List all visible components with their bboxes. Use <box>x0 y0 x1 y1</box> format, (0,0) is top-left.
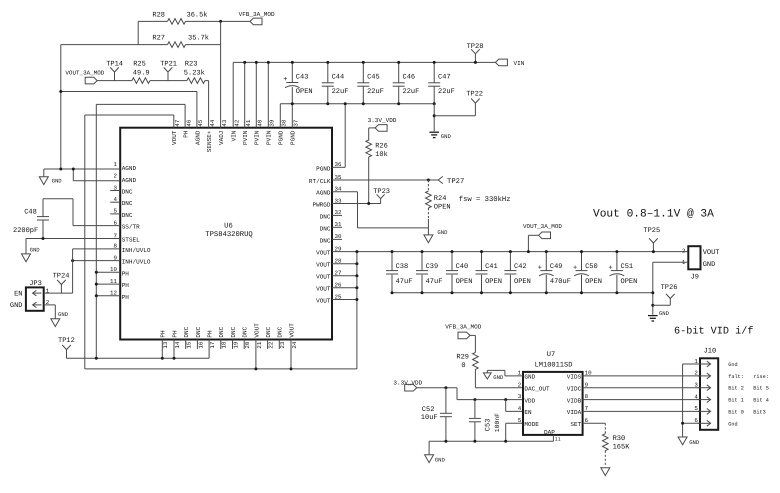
svg-text:PGND: PGND <box>290 130 297 145</box>
resistor R25 <box>132 60 150 83</box>
test point TP26 <box>653 284 678 305</box>
pin 23 DNC (U6 bottom) <box>277 326 287 348</box>
wire 3.3V rail <box>417 386 523 401</box>
pin 27 VOUT (U6 right) <box>316 270 342 281</box>
resistor R29 <box>456 335 478 387</box>
wire pin 25 stub <box>332 298 358 301</box>
svg-text:3.3V_VDD: 3.3V_VDD <box>393 380 422 387</box>
svg-text:18: 18 <box>221 341 228 348</box>
wire VIDA <box>583 410 700 412</box>
svg-text:J10: J10 <box>704 347 717 355</box>
pin 6 SET (U7 right) <box>570 417 588 428</box>
wire input cap gnd bus <box>280 104 434 128</box>
wire pin 26 stub <box>332 286 358 289</box>
wire J10 gnd ties <box>681 364 700 437</box>
ground (pin1 AGND) <box>39 169 62 185</box>
text Vout spec <box>593 207 714 220</box>
pin 10 VIDS (U7 right) <box>567 370 592 381</box>
node VFB_3A_MOD (top flag) <box>221 11 275 25</box>
wire VIDC <box>583 387 700 389</box>
svg-text:VIN: VIN <box>514 60 525 67</box>
svg-text:C49: C49 <box>550 263 563 271</box>
op-amp U7 body <box>523 351 583 435</box>
svg-text:17: 17 <box>209 341 216 348</box>
junction R28/R27/VADJ <box>219 20 222 23</box>
svg-text:49.9: 49.9 <box>133 69 150 77</box>
wire pin 2 AGND <box>72 168 120 181</box>
node VOUT_3A_MOD (mid flag) <box>523 223 562 253</box>
svg-text:PGND: PGND <box>316 165 331 172</box>
svg-text:GND: GND <box>10 302 23 310</box>
svg-text:C44: C44 <box>332 74 345 82</box>
wire JP3 pin 1 <box>44 292 73 294</box>
svg-text:VOUT: VOUT <box>703 249 720 257</box>
pin 3 DNC (U6 left) <box>114 184 133 195</box>
pin 29 VOUT (U6 right) <box>316 245 342 256</box>
pin 40 PVIN (U6 top) <box>254 119 264 145</box>
wire MODE tie (pin 5) <box>506 423 523 441</box>
svg-text:VADJ: VADJ <box>218 131 225 145</box>
junction R24 top <box>427 179 430 182</box>
svg-text:1: 1 <box>114 161 118 168</box>
test point TP12 <box>58 337 75 358</box>
svg-text:VIDB: VIDB <box>567 397 582 404</box>
svg-text:10uF: 10uF <box>421 414 438 422</box>
resistor R30 <box>603 423 631 467</box>
svg-text:LM10011SD: LM10011SD <box>535 362 573 370</box>
pin 3 VDD (U7 left) <box>518 393 536 404</box>
svg-text:TP22: TP22 <box>466 91 483 99</box>
op-amp U6 body <box>120 128 332 340</box>
svg-text:36.5k: 36.5k <box>187 10 208 19</box>
connector J9 <box>682 246 720 281</box>
node VOUT_3A_MOD (left flag) <box>65 69 104 84</box>
svg-text:VOUT_3A_MOD: VOUT_3A_MOD <box>65 69 104 76</box>
svg-text:OPEN: OPEN <box>456 278 473 286</box>
svg-text:rise:: rise: <box>753 374 769 380</box>
pin 2 AGND (U6 left) <box>114 173 137 184</box>
svg-text:TP25: TP25 <box>643 227 660 235</box>
ground (C48) <box>22 239 41 262</box>
svg-text:Bit 1: Bit 1 <box>728 398 744 404</box>
wire pin 1 AGND <box>44 168 120 171</box>
pin 8 VIDB (U7 right) <box>567 393 589 404</box>
svg-text:GND: GND <box>437 229 448 236</box>
pin 41 PVIN (U6 top) <box>242 119 252 145</box>
pin 7 VIDA (U7 right) <box>567 405 589 416</box>
svg-text:C41: C41 <box>485 263 498 271</box>
svg-text:VOUT: VOUT <box>316 274 331 281</box>
svg-text:DNC: DNC <box>195 326 202 337</box>
svg-text:TP27: TP27 <box>447 178 464 186</box>
wire pin 17 PH drop <box>208 340 210 359</box>
test point TP23 <box>373 188 390 203</box>
pin 30-32 DNC stubs (U6 right) <box>332 215 342 239</box>
svg-text:Bit 5: Bit 5 <box>753 386 769 392</box>
pin 7 STSEL (U6 left) <box>114 232 141 243</box>
svg-text:DNC: DNC <box>277 326 284 337</box>
pin 1 GND (U7 left) <box>518 370 536 381</box>
pin 44 SENSE+ (U6 top) <box>206 119 216 152</box>
pin 22 DNC (U6 bottom) <box>265 326 275 348</box>
capacitor C38 <box>386 250 412 294</box>
wire DAC_OUT (pin 2) <box>475 387 523 389</box>
svg-text:GND: GND <box>493 374 504 381</box>
svg-text:PH: PH <box>183 130 190 138</box>
pin 21 VOUT (U6 bottom) <box>253 323 263 349</box>
connector J10 <box>700 347 718 429</box>
svg-text:GND: GND <box>703 261 716 269</box>
node 3.3V_VDD (R26 flag) <box>368 117 397 131</box>
pin 2 (J10) <box>694 370 769 380</box>
wire PH pins 10-12 ties <box>95 271 120 298</box>
svg-text:VOUT: VOUT <box>288 323 295 338</box>
ground (U7 pin1) <box>483 373 504 381</box>
pin 25 VOUT (U6 right) <box>316 293 342 304</box>
svg-text:VIN: VIN <box>231 130 238 141</box>
svg-text:TP14: TP14 <box>106 60 123 68</box>
svg-text:2: 2 <box>518 381 522 388</box>
pin 15 DNC (U6 bottom) <box>183 326 193 348</box>
pin 18 DNC (U6 bottom) <box>218 326 228 348</box>
pin 19 DNC (U6 bottom) <box>230 326 240 348</box>
svg-text:6-bit VID i/f: 6-bit VID i/f <box>674 325 753 337</box>
svg-text:44: 44 <box>209 119 216 126</box>
svg-text:DNC: DNC <box>265 326 272 337</box>
svg-text:OPEN: OPEN <box>296 88 313 96</box>
svg-text:47: 47 <box>174 119 181 126</box>
svg-text:11: 11 <box>555 437 561 443</box>
svg-text:GND: GND <box>659 310 670 317</box>
svg-text:23: 23 <box>279 341 286 348</box>
wire SET to R30 <box>583 422 606 424</box>
svg-text:R27: R27 <box>152 35 165 43</box>
pin 37 PGND (U6 top) <box>290 119 300 145</box>
svg-text:C42: C42 <box>514 263 527 271</box>
svg-text:22uF: 22uF <box>403 88 420 96</box>
capacitor C49 <box>538 250 571 294</box>
pin 28 VOUT (U6 right) <box>316 258 342 269</box>
pin 34 AGND (U6 right) <box>316 186 342 197</box>
svg-text:5: 5 <box>694 405 698 412</box>
node VIN (flag) <box>495 59 524 67</box>
svg-text:+: + <box>573 265 577 273</box>
svg-text:PWRGD: PWRGD <box>312 202 330 209</box>
svg-text:R29: R29 <box>456 354 469 362</box>
pin 39 PVIN (U6 top) <box>266 119 276 145</box>
svg-text:STSEL: STSEL <box>122 237 140 244</box>
pin 43 VADJ (U6 top) <box>218 119 228 145</box>
wire J9 pin1 gnd <box>651 262 688 314</box>
svg-text:OPEN: OPEN <box>514 278 531 286</box>
pin 45 AGND (U6 top) <box>194 119 204 145</box>
pin 1 AGND (U6 left) <box>114 161 137 172</box>
svg-text:DNC: DNC <box>320 213 331 220</box>
capacitor C46 <box>393 61 420 105</box>
svg-text:PH: PH <box>122 282 130 289</box>
ground (J9) <box>648 310 670 321</box>
svg-text:DNC: DNC <box>122 212 133 219</box>
svg-text:GND: GND <box>524 374 535 381</box>
svg-text:TP24: TP24 <box>53 273 70 281</box>
pin 6 (J10) <box>694 417 737 427</box>
svg-text:2200pF: 2200pF <box>13 227 38 235</box>
pin 5 (J10) <box>694 405 765 415</box>
ground (R30) <box>601 468 610 476</box>
svg-text:43: 43 <box>221 119 228 126</box>
pin 30 DNC (U6 right) <box>320 233 342 244</box>
pin 20 DNC (U6 bottom) <box>242 326 252 348</box>
svg-text:PGND: PGND <box>278 130 285 145</box>
svg-text:C46: C46 <box>403 74 416 82</box>
svg-text:2: 2 <box>682 248 686 255</box>
wire R28-R27 left tie <box>137 21 139 44</box>
svg-text:VOUT: VOUT <box>316 250 331 257</box>
svg-text:41: 41 <box>245 119 252 126</box>
svg-text:2: 2 <box>694 370 698 377</box>
connector JP3 <box>10 280 50 311</box>
wire VOUT bottom run <box>85 368 357 370</box>
svg-text:38: 38 <box>281 119 288 126</box>
svg-text:+: + <box>608 265 612 273</box>
svg-text:0: 0 <box>461 362 465 370</box>
svg-text:TP28: TP28 <box>467 43 484 51</box>
svg-text:TP12: TP12 <box>58 337 75 345</box>
svg-text:47uF: 47uF <box>396 278 413 286</box>
svg-text:MODE: MODE <box>524 421 539 428</box>
pin 13 PH (U6 bottom) <box>160 330 170 349</box>
svg-text:C39: C39 <box>426 263 439 271</box>
svg-text:PH: PH <box>122 294 130 301</box>
svg-text:DAC_OUT: DAC_OUT <box>524 386 550 393</box>
wire INH/UVLO (pin 9) <box>71 259 120 262</box>
svg-text:VIDS: VIDS <box>567 374 582 381</box>
svg-text:21: 21 <box>256 341 263 348</box>
wire VOUT right-side tie <box>355 250 358 369</box>
svg-text:VFB_3A_MOD: VFB_3A_MOD <box>239 11 275 18</box>
svg-text:47uF: 47uF <box>426 278 443 286</box>
svg-text:VDD: VDD <box>524 397 535 404</box>
svg-text:22uF: 22uF <box>438 88 455 96</box>
wire VIN bus <box>233 61 495 63</box>
resistor R26 <box>366 128 388 204</box>
svg-text:U7: U7 <box>547 351 555 359</box>
ground (JP3) <box>51 311 69 326</box>
svg-text:VIDC: VIDC <box>567 386 582 393</box>
test point TP21 <box>160 61 177 81</box>
resistor R24 (OPEN) <box>426 180 451 228</box>
svg-text:DNC: DNC <box>320 225 331 232</box>
svg-text:+: + <box>283 76 287 84</box>
svg-text:22uF: 22uF <box>367 88 384 96</box>
svg-text:DNC: DNC <box>242 326 249 337</box>
svg-text:3: 3 <box>518 393 522 400</box>
wire pin 36 PGND up <box>332 102 347 167</box>
svg-text:Bit 2: Bit 2 <box>728 386 744 392</box>
resistor R23 <box>184 60 205 83</box>
resistor R28 <box>138 10 220 24</box>
svg-text:16: 16 <box>197 341 204 348</box>
svg-text:Bit 4: Bit 4 <box>753 398 769 404</box>
wire pin 14 PH drop <box>173 340 176 360</box>
pin 17 PH (U6 bottom) <box>207 330 217 349</box>
svg-text:EN: EN <box>524 409 532 416</box>
svg-text:DNC: DNC <box>183 326 190 337</box>
test point TP28 <box>467 43 484 64</box>
svg-text:VOUT: VOUT <box>316 298 331 305</box>
pin 32 DNC (U6 right) <box>320 209 342 220</box>
pin 11 DAP (U7) <box>544 429 561 442</box>
ground (input caps) <box>429 104 451 140</box>
svg-text:PVIN: PVIN <box>242 130 249 145</box>
svg-text:VFB_3A_MOD: VFB_3A_MOD <box>445 323 481 330</box>
capacitor C39 <box>416 250 442 294</box>
svg-text:PH: PH <box>122 270 130 277</box>
svg-text:TP26: TP26 <box>661 284 678 292</box>
svg-text:AGND: AGND <box>122 177 137 184</box>
svg-text:AGND: AGND <box>194 130 201 145</box>
pin 4 (J10) <box>694 393 769 403</box>
pin 14 PH (U6 bottom) <box>171 330 181 349</box>
pin 26 VOUT (U6 right) <box>316 282 342 293</box>
svg-text:C47: C47 <box>438 74 451 82</box>
svg-text:R24: R24 <box>434 195 447 203</box>
svg-text:22: 22 <box>268 341 275 348</box>
wire EN tie (pin 4) <box>506 400 523 412</box>
pin 6 SS/TR (U6 left) <box>114 219 141 230</box>
pin 5 MODE (U7 left) <box>518 417 539 428</box>
svg-text:SENSE+: SENSE+ <box>206 130 213 152</box>
svg-text:AGND: AGND <box>316 190 331 197</box>
wire JP3 pin 2 <box>44 305 56 319</box>
wire PWRGD (pin 33) <box>332 202 381 205</box>
text fsw <box>459 195 511 204</box>
svg-text:TPS84320RUQ: TPS84320RUQ <box>205 231 252 239</box>
capacitor C43 <box>283 61 312 128</box>
svg-text:35.7k: 35.7k <box>188 34 209 43</box>
pin 12 PH (U6 left) <box>110 290 129 301</box>
svg-text:C43: C43 <box>296 74 309 82</box>
node VFB_3A_MOD (bottom flag) <box>445 323 481 338</box>
svg-text:C53: C53 <box>485 419 493 432</box>
svg-text:AGND: AGND <box>122 165 137 172</box>
test point TP27 <box>438 176 464 186</box>
svg-text:14: 14 <box>174 341 181 348</box>
pin 24 VOUT (U6 bottom) <box>288 323 298 349</box>
capacitor C52 <box>421 388 452 442</box>
svg-text:GND: GND <box>30 246 41 253</box>
svg-text:VOUT: VOUT <box>316 286 331 293</box>
pin 3-5 DNC stubs (U6 left) <box>110 191 120 214</box>
wire INH/UVLO (pin 8) <box>73 248 121 250</box>
svg-text:470uF: 470uF <box>550 278 571 286</box>
ground (R24) <box>424 228 448 243</box>
svg-text:DNC: DNC <box>320 237 331 244</box>
svg-text:3: 3 <box>694 382 698 389</box>
capacitor C42 <box>504 250 530 294</box>
pin 10 PH (U6 left) <box>110 266 129 277</box>
wire flag to R25 <box>97 80 132 82</box>
svg-text:PVIN: PVIN <box>254 130 261 145</box>
wire SS/TR (pin 6) <box>43 199 120 226</box>
pin 9 INH/UVLO (U6 left) <box>114 254 151 265</box>
svg-text:39: 39 <box>269 119 276 126</box>
svg-text:VOUT_3A_MOD: VOUT_3A_MOD <box>523 223 562 230</box>
wire pin 27 stub <box>332 274 358 277</box>
svg-text:TP21: TP21 <box>160 61 177 69</box>
svg-text:INH/UVLO: INH/UVLO <box>122 259 151 266</box>
svg-text:Gnd: Gnd <box>728 362 737 368</box>
wire VIDS <box>583 375 700 377</box>
pin 42 VIN (U6 top) <box>231 119 241 141</box>
svg-text:+: + <box>538 265 542 273</box>
wire PH bottom run <box>67 357 210 359</box>
svg-text:GND: GND <box>52 178 63 185</box>
pin 31 DNC (U6 right) <box>320 221 342 232</box>
svg-text:PH: PH <box>207 330 214 338</box>
ground (J10) <box>678 437 700 446</box>
test point TP22 <box>434 91 483 116</box>
wire AGND (pin 34) <box>332 192 428 228</box>
capacitor C40 <box>446 250 472 294</box>
wire R25-R23 <box>150 80 187 82</box>
svg-text:5.23k: 5.23k <box>184 68 205 77</box>
svg-text:PVIN: PVIN <box>266 130 273 145</box>
pin 11 PH (U6 left) <box>110 278 129 289</box>
svg-text:R25: R25 <box>133 60 146 68</box>
pin 4 DNC (U6 left) <box>114 196 133 207</box>
svg-text:fsw = 330kHz: fsw = 330kHz <box>459 195 511 204</box>
svg-text:TP23: TP23 <box>373 188 390 196</box>
test point TP24 <box>53 273 70 294</box>
pin 16 DNC (U6 bottom) <box>195 326 205 348</box>
pin 36 PGND (U6 right) <box>316 161 342 172</box>
svg-text:Bit3: Bit3 <box>753 409 765 415</box>
wire U7 gnd bus <box>429 440 553 443</box>
wire AGND left rail <box>60 45 62 169</box>
svg-text:3.3V_VDD: 3.3V_VDD <box>368 117 397 124</box>
svg-text:19: 19 <box>232 341 239 348</box>
wire RT/CLK (pin 35) <box>332 179 438 181</box>
svg-text:4: 4 <box>694 393 698 400</box>
pin 9 VIDC (U7 right) <box>567 381 589 392</box>
pin 33 PWRGD (U6 right) <box>312 197 341 208</box>
test point TP14 <box>106 60 123 80</box>
pin 5 DNC (U6 left) <box>114 208 133 219</box>
svg-text:24: 24 <box>291 341 298 348</box>
svg-text:OPEN: OPEN <box>585 278 602 286</box>
svg-text:C51: C51 <box>621 263 634 271</box>
svg-text:JP3: JP3 <box>29 280 42 288</box>
svg-text:GND: GND <box>58 311 69 318</box>
bottom DNC stubs (U6) <box>186 340 280 350</box>
wire pin 46 PH loop <box>96 104 185 358</box>
svg-text:RT/CLK: RT/CLK <box>309 178 331 185</box>
svg-text:46: 46 <box>185 119 192 126</box>
svg-text:165K: 165K <box>613 443 631 451</box>
node 3.3V_VDD (bottom flag) <box>393 380 422 391</box>
svg-text:5: 5 <box>518 417 522 424</box>
svg-text:VOUT: VOUT <box>171 130 178 145</box>
svg-text:20: 20 <box>244 341 251 348</box>
wire output cap gnd bus <box>392 292 653 294</box>
svg-text:SS/TR: SS/TR <box>122 224 140 231</box>
svg-text:VOUT: VOUT <box>316 262 331 269</box>
svg-text:J9: J9 <box>691 273 699 281</box>
capacitor C50 <box>573 250 602 294</box>
wire pin 40 PVIN <box>255 61 258 128</box>
text 6-bit VID <box>674 325 753 337</box>
